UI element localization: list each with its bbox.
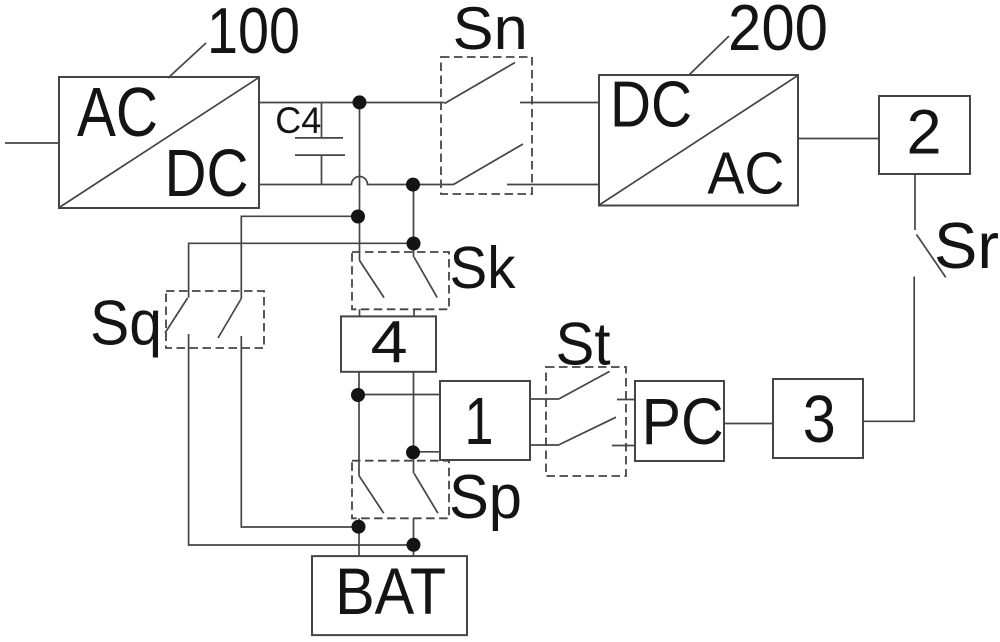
switch Sq dashed outline bbox=[166, 291, 264, 348]
svg-text:C4: C4 bbox=[275, 100, 321, 141]
wire Sr down and left to box 3 bbox=[863, 277, 914, 422]
wire box 2 down to switch Sr bbox=[914, 174, 916, 230]
wire DC bus top bbox=[259, 102, 445, 104]
wire St top right to PC bbox=[617, 399, 635, 401]
switch Sn bottom contact diagonal bbox=[454, 144, 524, 185]
node junction battery left bbox=[352, 520, 366, 534]
svg-text:PC: PC bbox=[642, 384, 724, 458]
wire inverter output to box 2 bbox=[798, 138, 879, 140]
svg-text:Sq: Sq bbox=[90, 289, 162, 359]
node junction battery right bbox=[407, 538, 421, 552]
switch Sp right diagonal bbox=[414, 473, 438, 513]
wire box 1 to St top bbox=[530, 398, 560, 400]
inverter U200 box bbox=[599, 75, 798, 206]
switch Sp dashed outline bbox=[352, 461, 449, 519]
switch Sr diagonal bbox=[917, 235, 946, 278]
wire Sn top right to inverter bbox=[520, 102, 599, 104]
box PC bbox=[635, 381, 724, 461]
box 1 bbox=[440, 381, 530, 460]
svg-text:AC: AC bbox=[77, 73, 158, 151]
box BAT bbox=[312, 556, 467, 635]
svg-text:DC: DC bbox=[610, 67, 692, 140]
switch St bottom diagonal bbox=[560, 417, 617, 444]
wire AC input bbox=[5, 142, 59, 144]
svg-text:2: 2 bbox=[906, 97, 941, 167]
node junction box 4 out right bbox=[406, 445, 420, 459]
svg-text:4: 4 bbox=[371, 310, 408, 376]
wire box 4 left output down to Sp bbox=[358, 372, 360, 476]
node junction bypass A bbox=[407, 237, 421, 251]
switch Sp left diagonal bbox=[359, 476, 384, 514]
label 100 leader line bbox=[168, 43, 206, 78]
switch Sn dashed outline bbox=[441, 57, 532, 194]
wire bypass A horizontal bbox=[189, 243, 414, 297]
svg-text:200: 200 bbox=[728, 0, 828, 64]
wire Sk left to box 4 bbox=[359, 309, 361, 316]
svg-text:Sr: Sr bbox=[934, 209, 999, 282]
wire node to box 1 lower bbox=[413, 451, 440, 453]
rectifier U100 box bbox=[59, 77, 259, 208]
svg-text:1: 1 bbox=[465, 384, 494, 459]
wire bypass B horizontal bbox=[241, 216, 358, 299]
svg-text:100: 100 bbox=[207, 0, 300, 67]
wire Sp right bottom to BAT bbox=[413, 518, 415, 556]
node junction bottom DC bus bbox=[406, 178, 420, 192]
switch St dashed outline bbox=[546, 367, 626, 476]
wire Sp left bottom to BAT bbox=[358, 518, 360, 556]
inverter U200 diagonal bbox=[600, 76, 797, 205]
switch St top diagonal bbox=[560, 371, 610, 398]
wire PC to box 3 bbox=[724, 423, 773, 425]
label 200 leader line bbox=[689, 36, 729, 75]
svg-text:Sn: Sn bbox=[453, 0, 528, 62]
wire node to box 1 upper bbox=[358, 394, 440, 396]
wire Sk right to box 4 bbox=[413, 309, 415, 316]
node junction bypass B bbox=[351, 210, 365, 224]
capacitor C4 bottom plate bbox=[295, 154, 345, 156]
wire St bottom right to PC bbox=[612, 445, 635, 447]
switch Sk dashed outline bbox=[352, 252, 449, 309]
wire right branch from DC bus bottom bbox=[413, 185, 415, 258]
box 2 bbox=[879, 96, 970, 174]
wire Sq right bottom down then right to battery node bbox=[241, 336, 358, 527]
switch Sn top contact diagonal bbox=[445, 63, 516, 104]
wire node top junction vertical left branch bbox=[359, 103, 361, 261]
svg-text:BAT: BAT bbox=[335, 554, 446, 628]
wire box 4 right output down to Sp bbox=[413, 372, 415, 474]
box 3 bbox=[773, 379, 863, 458]
svg-text:3: 3 bbox=[803, 382, 836, 457]
wire box 1 to St bottom bbox=[530, 444, 560, 446]
node junction box 4 out left bbox=[351, 388, 365, 402]
node junction top DC bus bbox=[353, 95, 367, 109]
switch Sk right diagonal bbox=[414, 257, 437, 298]
wire Sn bottom right to inverter bbox=[507, 184, 599, 186]
svg-text:Sp: Sp bbox=[449, 463, 522, 532]
svg-text:Sk: Sk bbox=[450, 235, 516, 301]
box 4 bbox=[341, 316, 436, 371]
capacitor C4 bottom lead bbox=[321, 155, 323, 184]
wire DC bus bottom with hop over battery branch bbox=[259, 177, 454, 185]
switch Sk left diagonal bbox=[360, 261, 385, 298]
capacitor C4 top plate bbox=[295, 137, 343, 139]
switch Sq right diagonal bbox=[218, 299, 241, 338]
capacitor C4 top lead bbox=[321, 103, 323, 138]
svg-text:DC: DC bbox=[165, 136, 249, 211]
rectifier U100 diagonal bbox=[60, 78, 258, 207]
wire Sq left bottom down then right to battery node bbox=[189, 334, 414, 545]
svg-text:St: St bbox=[556, 311, 611, 378]
svg-text:AC: AC bbox=[707, 141, 784, 207]
switch Sq left diagonal bbox=[165, 298, 188, 333]
